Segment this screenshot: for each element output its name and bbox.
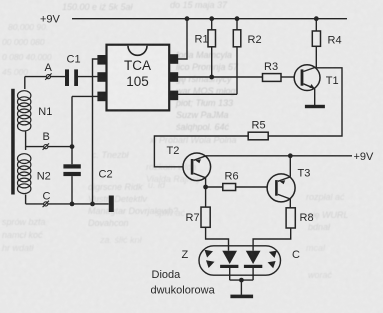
wire cathode to ground	[240, 280, 242, 295]
resistor R7	[186, 207, 211, 227]
pin 3	[97, 92, 106, 102]
wire IC pin4 to +9V rail	[178, 19, 187, 59]
pin 5	[169, 72, 178, 82]
pin 6	[169, 91, 178, 101]
wire +9V top rail	[72, 18, 347, 20]
resistor R6	[223, 171, 239, 191]
wire N2 bottom	[25, 195, 27, 204]
node T3 emitter junction	[288, 153, 293, 158]
wire R6 to T3 base	[236, 186, 268, 188]
wire node to R7	[205, 187, 207, 207]
transistor T3	[267, 168, 310, 202]
node junction rail-pin4	[185, 16, 190, 21]
wire R3 to T1 base	[281, 76, 295, 78]
node junction rail-R1	[209, 16, 214, 21]
resistor R8	[286, 208, 313, 228]
wire R7 to LED Z anode	[206, 227, 229, 251]
transistor T2	[167, 145, 211, 181]
resistor R4	[312, 19, 341, 68]
ground under LED	[230, 295, 253, 299]
bicolor LED package outline	[199, 246, 281, 275]
wire T1 collector to R5	[268, 68, 342, 136]
LED Z (left diode)	[220, 251, 238, 280]
inductor N1	[18, 91, 53, 131]
wire node to R6	[206, 186, 223, 188]
label Dioda dwukolorowa	[151, 269, 216, 297]
node junction pin1 wire-ground rail	[90, 202, 95, 207]
resistor R2	[233, 19, 261, 95]
wire T1 emitter to ground	[314, 89, 316, 106]
ground bar left	[109, 196, 114, 213]
node B terminal	[26, 131, 72, 150]
LED Z emission arrows	[205, 250, 215, 268]
node junction B-C2	[70, 144, 75, 149]
inductor N2	[18, 154, 51, 194]
wire C2 branch to IC pin3	[72, 95, 98, 97]
node junction rail-R2	[235, 16, 240, 21]
wire T2 collector to node	[205, 178, 207, 187]
LED C (right diode)	[244, 251, 262, 280]
node T2 collector junction	[203, 185, 208, 190]
resistor R1	[195, 19, 216, 77]
node junction rail-R4	[314, 16, 319, 21]
wire C1 to IC pin2	[78, 76, 98, 78]
wire A to coil top	[24, 77, 26, 89]
resistor R3	[263, 61, 282, 81]
node junction C2-ground rail	[70, 202, 75, 207]
wire T2 emitter +9V line	[206, 155, 352, 157]
wire LED common cathode	[230, 279, 253, 281]
capacitor C2	[63, 96, 112, 203]
node C terminal	[26, 191, 109, 208]
wire R5 to T2 base	[154, 136, 248, 167]
wire IC pin5 to R3	[178, 76, 263, 78]
resistor R5	[248, 120, 268, 140]
pin 2	[97, 72, 106, 82]
wire R2 to IC pin6	[178, 93, 237, 95]
op-amp U1 TCA105 body	[107, 45, 170, 111]
LED C emission arrows	[268, 251, 277, 269]
wire T3 collector to R8	[289, 199, 291, 208]
node A terminal	[25, 62, 65, 80]
ground under T1	[305, 105, 325, 108]
node cathode junction	[239, 278, 244, 283]
node junction R1-pin5 wire	[209, 75, 214, 80]
pin 1	[97, 55, 106, 65]
wire T3 emitter to +9V line	[289, 156, 291, 177]
pin 4	[169, 54, 178, 64]
capacitor C1	[65, 53, 81, 86]
wire R8 to LED C anode	[253, 228, 291, 251]
coil core bar	[11, 89, 15, 195]
wire IC pin1 to ground rail	[93, 59, 98, 204]
wire N1 to N2	[25, 132, 27, 151]
transistor T1	[294, 65, 338, 91]
